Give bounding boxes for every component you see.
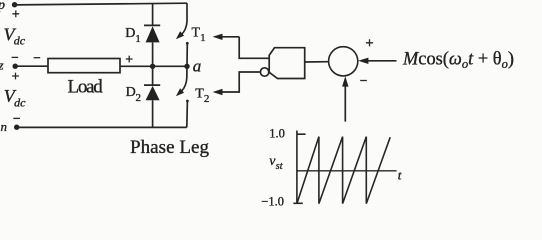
plus sign lower Vdc at z	[12, 73, 19, 80]
node p terminal dot	[12, 2, 17, 7]
y-axis tick 1.0	[297, 133, 306, 135]
plus sign comparator input	[366, 39, 373, 46]
node z terminal dot	[13, 63, 18, 68]
transistor T2	[176, 66, 189, 127]
minus sign comparator input	[360, 80, 367, 82]
svg-text:1: 1	[135, 33, 141, 45]
inverter bubble on T2 drive	[260, 68, 268, 76]
carrier plot t-axis	[297, 170, 397, 172]
transistor T1	[176, 3, 189, 66]
wire D1 branch top	[152, 4, 154, 26]
sawtooth carrier waveform	[297, 137, 390, 204]
minus sign lower Vdc at n	[13, 117, 20, 119]
node a dot	[184, 64, 189, 69]
wire load to node a mid rail	[120, 65, 187, 67]
svg-text:z: z	[0, 58, 4, 73]
svg-text:Phase Leg: Phase Leg	[130, 137, 210, 158]
svg-text:Load: Load	[68, 77, 104, 98]
minus sign load left	[34, 57, 41, 59]
svg-text:−1.0: −1.0	[261, 194, 284, 208]
node n terminal dot	[14, 125, 19, 130]
diode D2	[144, 66, 160, 127]
comparator minus input arrow from carrier	[342, 76, 348, 121]
junction dot diode leg / mid rail	[150, 64, 155, 69]
plus sign load right	[126, 56, 133, 63]
y-axis tick -1.0	[293, 202, 302, 204]
svg-text:Mcos(ωot + θo): Mcos(ωot + θo)	[402, 48, 514, 71]
diode D1	[144, 25, 160, 66]
gate driver box U1	[269, 48, 305, 79]
gate drive arrow to T1	[213, 34, 270, 59]
carrier plot y-axis	[296, 131, 298, 204]
svg-text:D: D	[125, 26, 135, 41]
load resistor box	[48, 59, 120, 73]
svg-text:t: t	[398, 167, 402, 182]
wire top rail p to T1 branch	[15, 3, 187, 5]
svg-text:st: st	[276, 161, 283, 172]
minus sign upper Vdc at z	[12, 56, 19, 58]
wire comparator output to gate	[305, 61, 329, 63]
svg-text:n: n	[1, 119, 8, 134]
svg-text:p: p	[0, 0, 5, 13]
svg-text:2: 2	[204, 93, 210, 105]
wire bottom rail n to T2 branch	[17, 126, 187, 128]
svg-text:1.0: 1.0	[269, 127, 285, 141]
wire z to load	[15, 65, 48, 67]
svg-text:D: D	[126, 85, 136, 100]
svg-text:1: 1	[200, 32, 206, 44]
comparator plus input arrow	[358, 58, 396, 64]
svg-text:dc: dc	[14, 95, 26, 109]
svg-text:2: 2	[136, 92, 142, 104]
gate drive arrow to T2	[213, 72, 261, 95]
svg-text:dc: dc	[14, 34, 26, 48]
plus sign upper Vdc	[12, 10, 19, 17]
svg-text:a: a	[193, 57, 202, 76]
comparator summing circle	[329, 47, 358, 76]
